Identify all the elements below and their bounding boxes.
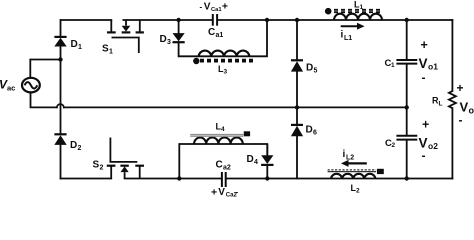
svg-text:+: + [222, 1, 228, 13]
node C1-C2 middle [405, 105, 409, 109]
svg-text:5: 5 [314, 68, 318, 75]
svg-text:+: + [211, 187, 217, 198]
label -VCa1+ [200, 1, 229, 13]
wire top rail left segment [61, 19, 111, 21]
wire C1 column [406, 20, 408, 107]
svg-text:o1: o1 [428, 62, 438, 72]
diode D6 [291, 125, 317, 137]
inductor L4 [190, 122, 250, 145]
svg-text:+: + [421, 38, 428, 52]
svg-text:D: D [71, 39, 78, 50]
source Vac [0, 78, 40, 93]
node D5-D6 middle [295, 105, 299, 109]
node C1 top [405, 18, 409, 22]
svg-text:1: 1 [78, 44, 82, 51]
label +Vo2- [419, 118, 439, 163]
diode D4 [247, 144, 274, 166]
svg-text:C: C [208, 27, 215, 38]
svg-text:3: 3 [224, 69, 228, 76]
wire right edge [451, 20, 453, 179]
wire Vac bottom link [31, 92, 57, 107]
node D5 top [295, 18, 299, 22]
label +Vo- [457, 81, 474, 127]
diode D1 [54, 37, 82, 51]
wire top rail mid segment [123, 19, 212, 21]
svg-text:1: 1 [109, 49, 113, 56]
label +VCa2- [211, 187, 239, 199]
inductor L1 [325, 0, 382, 20]
node Vac/D1-D2 junction [58, 57, 62, 61]
wire Vac top link [30, 60, 60, 78]
svg-text:Ca1: Ca1 [211, 7, 222, 13]
wire D5 column [296, 20, 298, 107]
svg-text:D: D [247, 154, 254, 165]
capacitor Ca1 [208, 14, 223, 39]
svg-text:3: 3 [167, 39, 171, 46]
svg-text:-: - [422, 149, 426, 163]
svg-text:-: - [200, 2, 203, 11]
svg-text:+: + [457, 81, 464, 95]
wire D6 column [296, 107, 298, 178]
MOSFET S1 [102, 20, 144, 56]
inductor L3 [193, 51, 255, 76]
svg-text:2: 2 [100, 165, 104, 172]
node C2 bottom [405, 176, 409, 180]
svg-text:L1: L1 [344, 35, 352, 42]
svg-text:2: 2 [356, 188, 360, 195]
svg-text:L2: L2 [346, 155, 354, 162]
svg-text:ac: ac [7, 84, 15, 93]
svg-text:-: - [422, 71, 426, 85]
svg-text:C: C [216, 160, 223, 171]
MOSFET S2 [93, 138, 145, 179]
svg-text:a1: a1 [216, 32, 224, 39]
svg-text:D: D [306, 125, 313, 136]
wire bottom rail [61, 178, 453, 180]
capacitor C2 [385, 136, 417, 149]
svg-text:4: 4 [254, 159, 258, 166]
svg-text:D: D [160, 34, 167, 45]
svg-text:4: 4 [221, 126, 225, 133]
wire C2 column [406, 107, 408, 178]
node Ca1 right [265, 18, 269, 22]
svg-text:o2: o2 [428, 141, 438, 151]
svg-text:2: 2 [78, 145, 82, 152]
diode D3 [160, 33, 185, 46]
wire L4 branch [179, 144, 267, 179]
svg-text:a2: a2 [223, 165, 231, 172]
svg-text:V: V [419, 56, 428, 71]
svg-text:+: + [422, 118, 429, 132]
svg-text:L: L [439, 101, 443, 108]
node D4 bottom [265, 176, 269, 180]
svg-text:o: o [469, 106, 474, 116]
current arrow iL1 [341, 23, 365, 42]
wire left column [60, 20, 62, 179]
node L4 left bottom [177, 176, 181, 180]
svg-text:D: D [306, 63, 313, 74]
wire hop over node [57, 104, 64, 107]
current arrow iL2 [341, 149, 367, 167]
svg-text:S: S [93, 160, 100, 171]
inductor L2 [328, 169, 384, 195]
label +Vo1- [419, 38, 439, 85]
svg-text:1: 1 [360, 4, 364, 11]
svg-text:V: V [204, 2, 211, 13]
capacitor C1 [385, 58, 418, 69]
svg-text:S: S [102, 44, 109, 55]
capacitor Ca2 [216, 160, 231, 188]
resistor RL [432, 91, 456, 108]
diode D5 [291, 60, 318, 74]
svg-text:1: 1 [391, 62, 395, 69]
diode D2 [54, 134, 81, 152]
svg-text:-: - [459, 113, 463, 127]
svg-text:D: D [70, 140, 77, 151]
svg-text:V: V [218, 187, 225, 197]
wire D3 branch [179, 20, 267, 56]
wire middle rail [64, 106, 407, 108]
wire top rail right segment [218, 19, 453, 21]
svg-text:-: - [236, 187, 239, 196]
svg-text:2: 2 [392, 142, 396, 149]
node D3 top [176, 18, 180, 22]
svg-text:6: 6 [313, 130, 317, 137]
